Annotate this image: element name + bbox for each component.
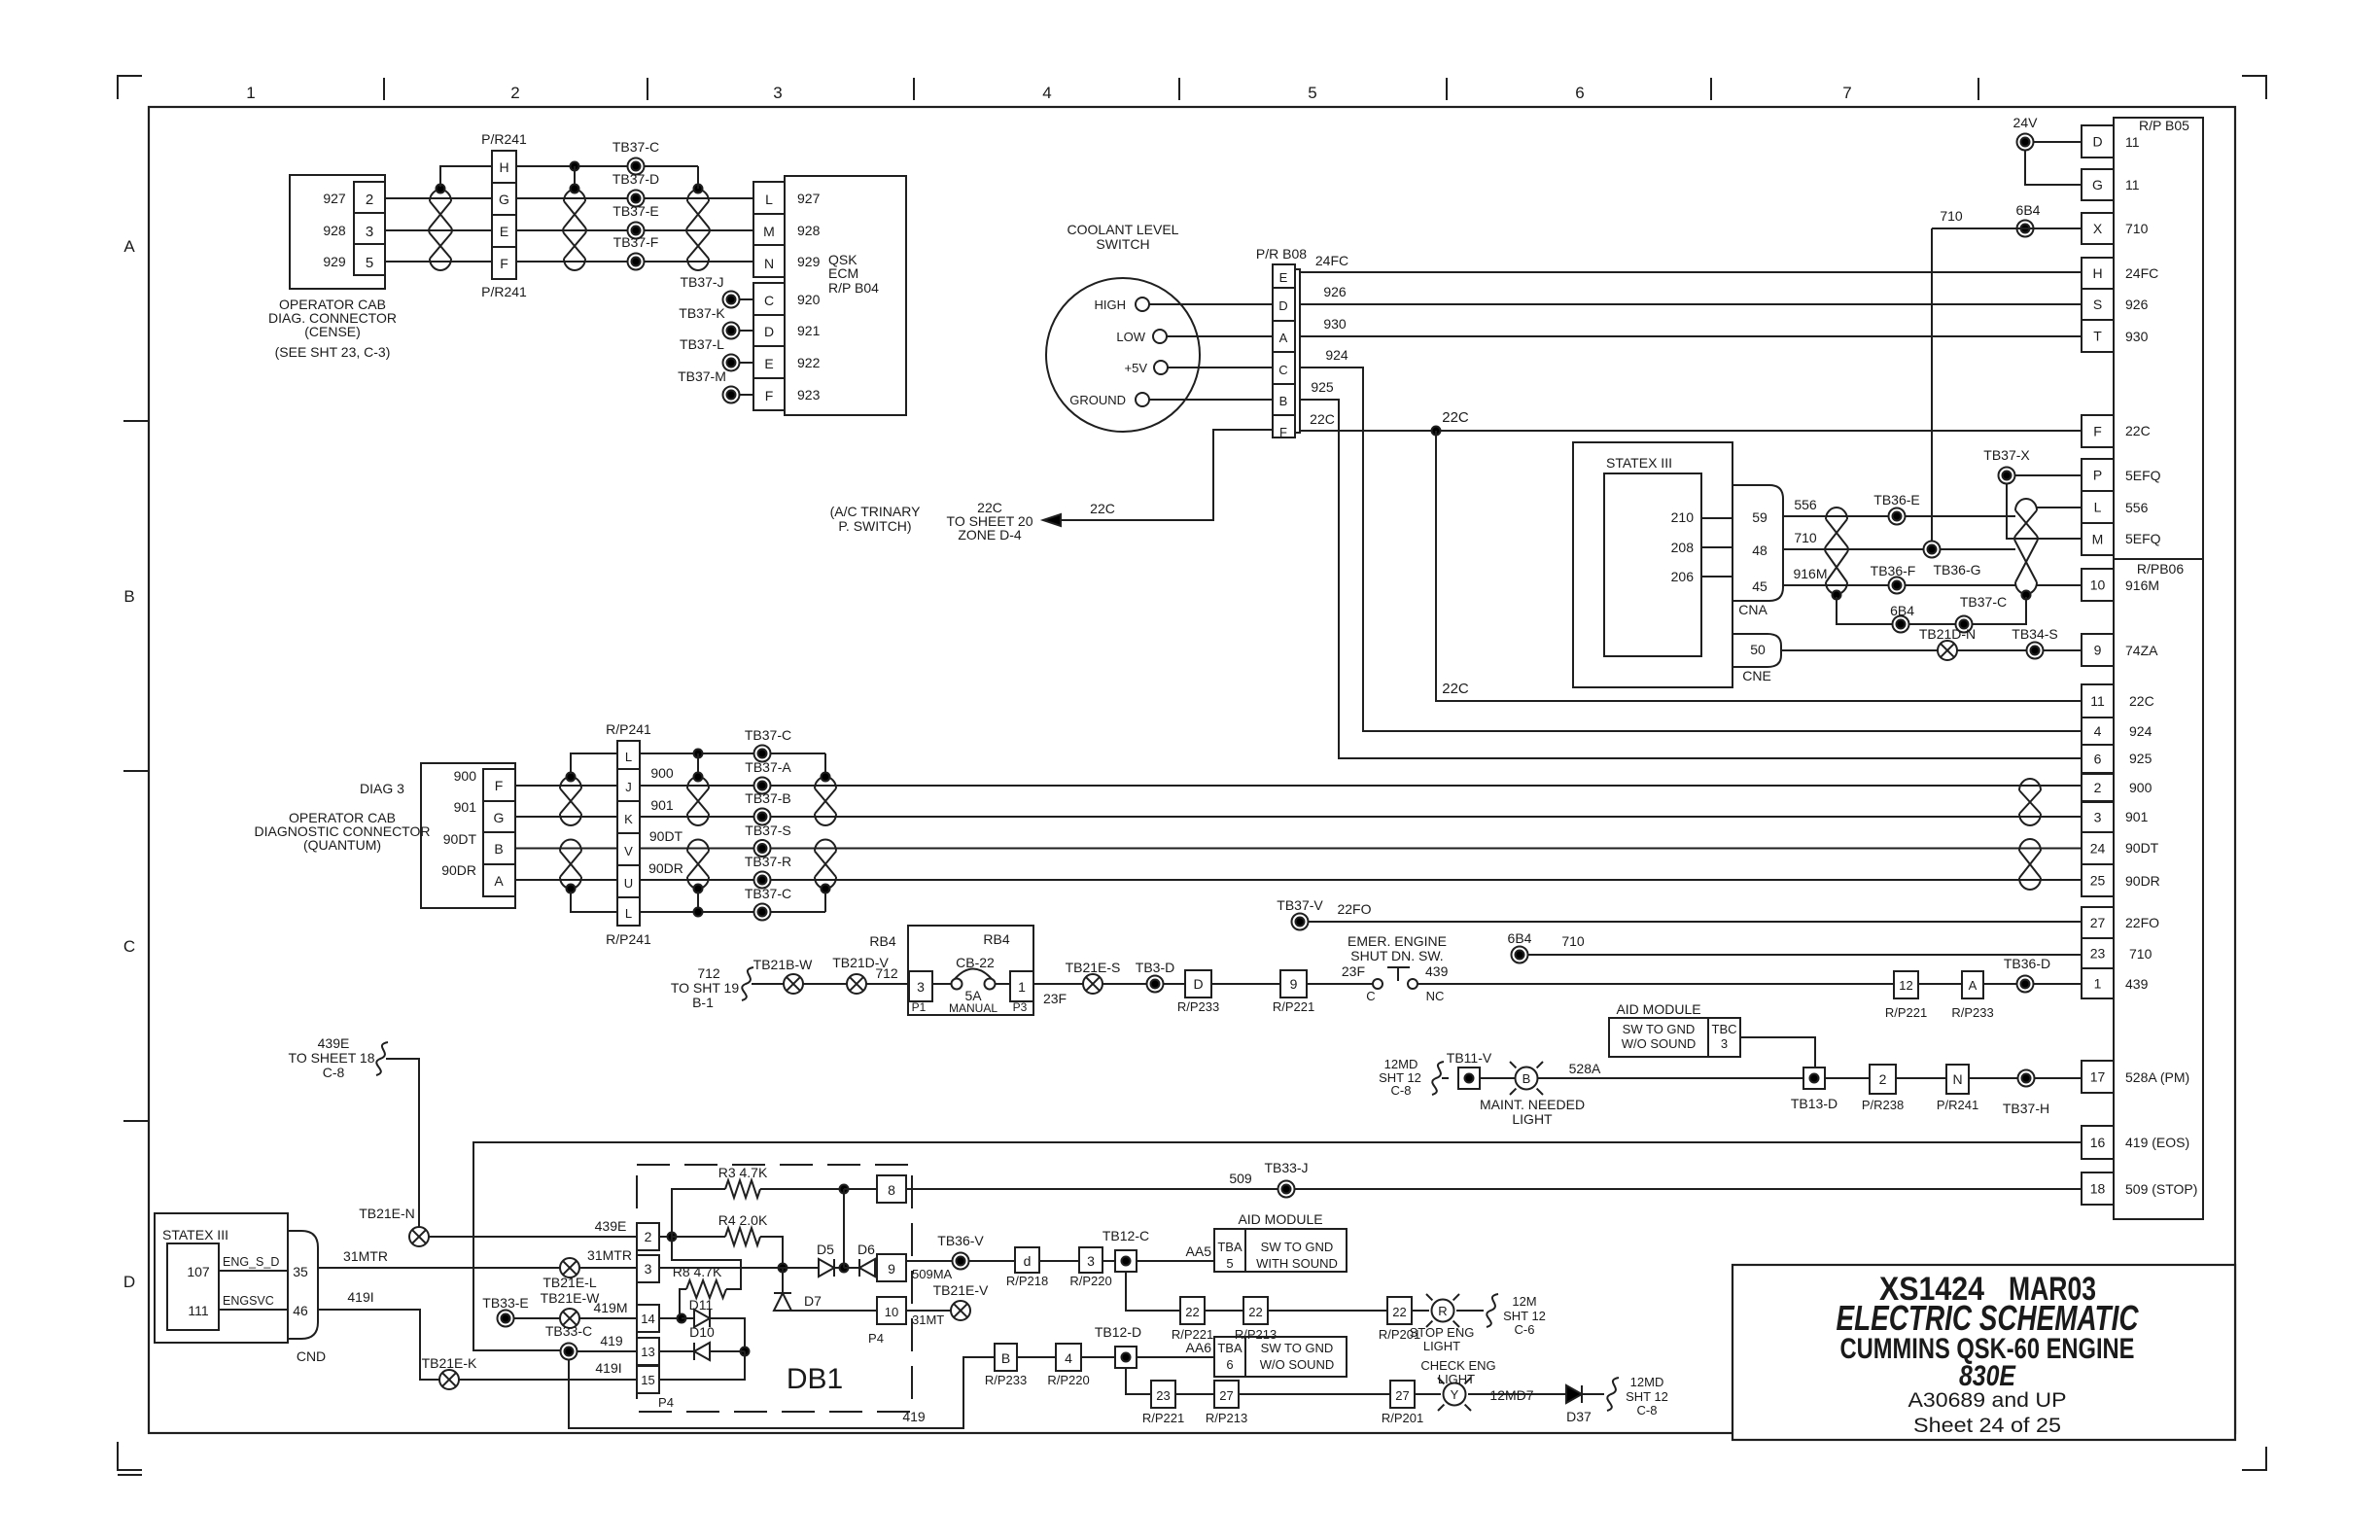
terminal TB21E-W <box>560 1309 579 1328</box>
wire break 12M <box>1487 1294 1498 1327</box>
wire break <box>1432 1062 1444 1095</box>
svg-text:5: 5 <box>1308 84 1316 102</box>
svg-text:22C: 22C <box>1310 411 1335 427</box>
svg-text:710: 710 <box>2125 221 2149 236</box>
wire 710 to pin 23 <box>1528 954 2082 956</box>
STATEX pins ENG_S_D ENGSVC <box>219 1270 288 1272</box>
svg-text:830E: 830E <box>1959 1360 2016 1392</box>
wire 509 stop <box>907 1188 1277 1190</box>
wire 23F RB4 to emer switch <box>1033 983 1083 985</box>
svg-text:TB21B-W: TB21B-W <box>753 957 813 972</box>
svg-text:(QUANTUM): (QUANTUM) <box>303 837 381 853</box>
switch pin GROUND <box>1136 393 1149 406</box>
svg-text:5: 5 <box>366 255 373 271</box>
svg-text:M: M <box>2092 532 2104 547</box>
junction dot <box>567 773 576 782</box>
svg-text:SHUT DN. SW.: SHUT DN. SW. <box>1350 948 1443 963</box>
P4 pin 15 <box>637 1366 659 1393</box>
svg-text:RB4: RB4 <box>983 931 1009 947</box>
svg-text:E: E <box>500 224 508 239</box>
svg-text:11: 11 <box>2125 134 2140 150</box>
svg-text:Sheet 24 of 25: Sheet 24 of 25 <box>1913 1415 2061 1437</box>
junction dot mid twist bottom <box>694 885 703 893</box>
svg-text:22C: 22C <box>1442 681 1469 697</box>
connector pin 22 R/P213 <box>1243 1297 1268 1324</box>
wire H-loop left of P/R241 <box>440 166 492 187</box>
STATEX III lower box <box>155 1213 288 1343</box>
svg-text:31MT: 31MT <box>912 1312 944 1327</box>
svg-text:24V: 24V <box>2013 115 2039 130</box>
svg-text:TB36-G: TB36-G <box>1933 562 1980 577</box>
svg-text:900: 900 <box>650 765 674 781</box>
svg-text:P/R238: P/R238 <box>1862 1098 1904 1112</box>
terminal TB37-L <box>723 355 740 371</box>
connector operator cab diagnostic (QUANTUM) outer box <box>421 763 515 908</box>
terminal TB37-J <box>723 292 740 308</box>
svg-text:LIGHT: LIGHT <box>1512 1111 1553 1127</box>
wire 419 EOS <box>473 1142 2082 1350</box>
svg-text:A: A <box>494 873 504 889</box>
svg-text:920: 920 <box>797 292 821 307</box>
wire AA5 to module <box>1137 1260 1214 1262</box>
svg-text:TB37-L: TB37-L <box>680 336 724 352</box>
vertical link H to twist2 <box>574 166 576 189</box>
svg-text:22C: 22C <box>2129 693 2154 709</box>
svg-text:LIGHT: LIGHT <box>1438 1372 1475 1386</box>
P4 pin 3 <box>637 1255 659 1282</box>
svg-text:CHECK ENG: CHECK ENG <box>1420 1358 1495 1373</box>
twisted pair quantum mid upper <box>687 777 709 825</box>
svg-text:H: H <box>2092 265 2102 281</box>
svg-text:15: 15 <box>641 1373 654 1387</box>
svg-text:TB21E-N: TB21E-N <box>359 1206 415 1221</box>
svg-text:2: 2 <box>2094 780 2102 795</box>
svg-text:E: E <box>764 356 773 371</box>
svg-text:R/PB06: R/PB06 <box>2137 561 2184 577</box>
connector pin 22 R/P201 <box>1387 1297 1412 1324</box>
wire 90DR to pins <box>640 879 2082 881</box>
terminal TB36-D <box>2017 976 2034 993</box>
diode D11 <box>682 1317 694 1319</box>
twisted pair before pins 24 25 <box>2019 839 2041 890</box>
terminal TB34-S <box>2027 643 2044 659</box>
svg-text:921: 921 <box>797 323 821 338</box>
svg-text:439E: 439E <box>318 1035 350 1051</box>
junction dot topL <box>694 750 703 758</box>
svg-text:J: J <box>625 780 632 794</box>
twisted pair before pins 2 3 <box>2019 779 2041 825</box>
R/PB06 pin 25 <box>2082 864 2114 896</box>
R/PB06 pin 24 <box>2082 832 2114 864</box>
svg-text:LIGHT: LIGHT <box>1423 1339 1460 1353</box>
wire 23F to emer sw <box>1307 983 1373 985</box>
wire 928 P/R241 to ECM M <box>516 229 753 231</box>
svg-text:22C: 22C <box>1090 501 1115 516</box>
wire 916M CNA to R/PB06 pin 10 <box>1783 584 2015 586</box>
R/P B05 pin X <box>2082 213 2114 244</box>
svg-text:16: 16 <box>2090 1135 2106 1150</box>
R/PB06 pin 1 <box>2082 968 2114 998</box>
svg-text:TB33-C: TB33-C <box>545 1323 592 1339</box>
maint needed light <box>1537 1089 1543 1095</box>
svg-text:12MD7: 12MD7 <box>1489 1387 1533 1403</box>
svg-text:4: 4 <box>1065 1350 1072 1366</box>
svg-text:924: 924 <box>2129 723 2152 739</box>
svg-text:TB37-B: TB37-B <box>745 790 790 806</box>
junction dot <box>567 885 576 893</box>
svg-text:419: 419 <box>600 1333 623 1348</box>
svg-text:HIGH: HIGH <box>1095 297 1127 312</box>
terminal TB12-C <box>1115 1250 1137 1272</box>
svg-text:R8 4.7K: R8 4.7K <box>673 1264 722 1279</box>
wire 90DT QUANTUM to R/P241 V <box>515 848 617 850</box>
resistor R4 2.0K <box>672 1236 725 1238</box>
wire HIGH to P/R B08 D <box>1149 303 1273 305</box>
svg-text:R/P213: R/P213 <box>1206 1411 1247 1425</box>
svg-text:SHT 12: SHT 12 <box>1626 1389 1668 1404</box>
svg-text:D37: D37 <box>1566 1409 1592 1424</box>
svg-text:22: 22 <box>1185 1305 1199 1319</box>
svg-text:P/R241: P/R241 <box>481 131 527 147</box>
svg-text:916M: 916M <box>1793 566 1827 581</box>
svg-text:419 (EOS): 419 (EOS) <box>2125 1135 2189 1150</box>
connector pin 12 R/P221 <box>1894 971 1918 998</box>
svg-text:14: 14 <box>641 1312 654 1326</box>
wire to TB11-V <box>1442 1077 1449 1079</box>
svg-text:MAINT. NEEDED: MAINT. NEEDED <box>1480 1097 1585 1112</box>
svg-text:SW TO GND: SW TO GND <box>1261 1240 1334 1254</box>
svg-text:W/O SOUND: W/O SOUND <box>1260 1357 1335 1372</box>
svg-text:24FC: 24FC <box>1315 253 1348 268</box>
svg-text:B: B <box>1001 1350 1010 1366</box>
svg-text:23F: 23F <box>1043 991 1067 1006</box>
twisted pair quantum left upper <box>560 777 581 825</box>
svg-text:6B4: 6B4 <box>1890 603 1914 618</box>
wire break 712 <box>742 967 753 1000</box>
svg-text:1: 1 <box>2094 976 2102 992</box>
wire R8 link <box>672 1237 741 1289</box>
svg-text:3: 3 <box>366 224 373 240</box>
svg-text:923: 923 <box>797 387 821 402</box>
svg-text:AID MODULE: AID MODULE <box>1238 1211 1322 1227</box>
svg-text:TB21E-W: TB21E-W <box>541 1290 600 1306</box>
svg-text:F: F <box>1279 425 1287 439</box>
terminal TB21E-V <box>951 1301 970 1320</box>
svg-text:TBC: TBC <box>1712 1022 1737 1036</box>
svg-text:D11: D11 <box>689 1297 714 1312</box>
svg-text:35: 35 <box>293 1264 308 1279</box>
svg-text:TB37-R: TB37-R <box>745 854 791 869</box>
connector pin N P/R241 <box>1946 1065 1969 1094</box>
svg-text:TB13-D: TB13-D <box>1791 1096 1837 1111</box>
svg-text:111: 111 <box>188 1303 208 1318</box>
svg-text:712: 712 <box>697 965 720 981</box>
svg-text:N: N <box>1952 1071 1962 1087</box>
svg-text:TB37-J: TB37-J <box>680 274 723 290</box>
svg-text:509: 509 <box>1229 1171 1252 1186</box>
circuit breaker RB4 box <box>908 926 1033 1015</box>
wire TB12-C down to stop light row <box>1126 1272 1180 1311</box>
wire 930 to R/P B05 T <box>1300 335 2082 337</box>
svg-text:901: 901 <box>454 799 477 815</box>
diode D6 <box>844 1267 859 1269</box>
wire H P/R241 to TB37-C run <box>516 165 698 167</box>
R/P B05 pin G <box>2082 169 2114 200</box>
vertical L to mid twist <box>697 753 699 774</box>
twisted pair quantum right upper <box>815 777 836 825</box>
svg-text:C: C <box>1366 989 1375 1003</box>
svg-text:TB11-V: TB11-V <box>1447 1050 1492 1066</box>
svg-text:TBA: TBA <box>1217 1341 1242 1355</box>
terminal TB33-E <box>498 1311 514 1327</box>
svg-text:C: C <box>123 937 135 956</box>
wire right twist to L2 <box>824 892 826 912</box>
svg-text:K: K <box>624 812 633 826</box>
connector P/R241 upper strip pins H G E F <box>492 151 516 279</box>
twisted pair quantum mid lower <box>687 840 709 890</box>
svg-text:R/P233: R/P233 <box>985 1373 1027 1387</box>
connector pin 27 R/P213 <box>1214 1381 1239 1408</box>
wire to maint light <box>1480 1077 1515 1079</box>
wire +5V to P/R B08 C <box>1168 367 1273 368</box>
twisted pair statex left <box>1825 507 1848 594</box>
svg-text:L: L <box>2094 500 2102 515</box>
svg-text:45: 45 <box>1752 578 1767 594</box>
wire 24V to pin G <box>2025 151 2082 185</box>
wire 710 CNA to TB36-G <box>1783 548 2015 550</box>
svg-text:1: 1 <box>246 84 255 102</box>
svg-text:439: 439 <box>1425 963 1449 979</box>
svg-text:901: 901 <box>2125 809 2149 824</box>
connector QUANTUM pin box F G B A <box>483 769 515 896</box>
svg-text:528A: 528A <box>1569 1061 1601 1076</box>
terminal TB36-F <box>1889 577 1906 594</box>
connector ECM pins L M N <box>753 182 785 277</box>
svg-text:3: 3 <box>917 979 925 995</box>
wire 90DT to pins <box>640 848 2082 850</box>
wire 927 P/R241 to ECM L <box>516 197 753 199</box>
connector R/P241 quantum strip <box>617 741 640 926</box>
svg-text:90DT: 90DT <box>443 831 477 847</box>
R/P B05 pin F <box>2082 415 2114 447</box>
R/PB06 pin 17 <box>2082 1061 2114 1093</box>
wire H down to twist3 <box>697 166 699 189</box>
R/PB06 pin 16 <box>2082 1126 2114 1159</box>
svg-text:R/P221: R/P221 <box>1273 999 1314 1014</box>
svg-text:D7: D7 <box>804 1293 822 1309</box>
wire 31MTR statex to P4 pin3 <box>318 1267 560 1269</box>
svg-text:25: 25 <box>2090 873 2106 889</box>
svg-text:R/P B05: R/P B05 <box>2139 118 2189 133</box>
svg-text:R/P213: R/P213 <box>1235 1327 1277 1342</box>
svg-text:9: 9 <box>888 1261 895 1277</box>
svg-text:208: 208 <box>1671 540 1695 555</box>
P4 pin 14 <box>637 1305 659 1332</box>
svg-text:22FO: 22FO <box>1337 901 1371 917</box>
svg-text:D: D <box>1193 976 1203 992</box>
svg-text:R/P218: R/P218 <box>1006 1274 1048 1288</box>
R/PB06 pin 11 <box>2082 684 2114 717</box>
wire top L to TB37-C <box>640 752 825 754</box>
svg-text:DIAG 3: DIAG 3 <box>360 781 404 796</box>
diode D10 <box>659 1350 694 1352</box>
switch pin HIGH <box>1136 297 1149 311</box>
svg-text:SWITCH: SWITCH <box>1096 236 1149 252</box>
svg-text:A: A <box>1279 331 1288 345</box>
svg-text:E: E <box>1279 270 1288 285</box>
coolant level switch circle <box>1046 278 1200 432</box>
svg-text:TB37-F: TB37-F <box>613 234 659 250</box>
terminal TB37-C <box>628 158 645 175</box>
terminal TB21E-L <box>560 1258 579 1277</box>
connector pin B R/P233 <box>995 1344 1017 1371</box>
svg-text:8: 8 <box>888 1182 895 1198</box>
svg-text:R/P201: R/P201 <box>1382 1411 1423 1425</box>
svg-text:T: T <box>2093 329 2102 344</box>
svg-text:F: F <box>500 256 508 271</box>
svg-text:3: 3 <box>645 1261 652 1277</box>
svg-text:924: 924 <box>1325 347 1348 363</box>
wire to pin 17 <box>2035 1077 2082 1079</box>
terminal TB33-C <box>561 1344 577 1360</box>
junction dot mid twist top <box>694 773 703 782</box>
wire 927 CENSE pin2 to P/R241 G <box>385 197 492 199</box>
R/P B05 pin T <box>2082 320 2114 352</box>
twisted pair quantum right lower <box>815 840 836 890</box>
svg-text:926: 926 <box>2125 297 2149 312</box>
junction dot D5-D6 <box>834 1267 844 1269</box>
svg-text:50: 50 <box>1750 642 1766 657</box>
svg-text:N: N <box>764 256 774 271</box>
svg-text:12MD: 12MD <box>1384 1057 1418 1071</box>
svg-text:A30689 and UP: A30689 and UP <box>1908 1389 2067 1412</box>
svg-text:P/R241: P/R241 <box>1937 1098 1978 1112</box>
svg-text:TB37-C: TB37-C <box>1960 594 2007 610</box>
svg-text:TB37-C: TB37-C <box>612 139 659 155</box>
svg-text:AA6: AA6 <box>1186 1340 1212 1355</box>
svg-text:419I: 419I <box>595 1360 621 1376</box>
svg-text:R/P B04: R/P B04 <box>828 280 879 296</box>
svg-text:90DT: 90DT <box>2125 840 2159 856</box>
svg-text:925: 925 <box>2129 751 2152 766</box>
RB4 pin 1 P3 <box>1010 971 1033 1001</box>
svg-text:AID MODULE: AID MODULE <box>1616 1001 1700 1017</box>
svg-text:TB36-E: TB36-E <box>1873 492 1919 507</box>
svg-text:3: 3 <box>1721 1036 1728 1051</box>
wire 556 CNA to R/P B05 L <box>1783 515 2015 517</box>
terminal TB37-R <box>754 872 771 889</box>
svg-text:439E: 439E <box>595 1218 627 1234</box>
junction dot H at x591 <box>571 162 579 171</box>
svg-text:7: 7 <box>1842 84 1851 102</box>
svg-text:90DR: 90DR <box>2125 873 2160 889</box>
terminal TB21E-K <box>439 1370 459 1389</box>
svg-text:(CENSE): (CENSE) <box>304 324 361 339</box>
wire TB12-D down to check light row <box>1126 1368 1151 1394</box>
svg-text:48: 48 <box>1752 542 1767 558</box>
svg-text:3: 3 <box>773 84 782 102</box>
R/PB06 pin 6 <box>2082 745 2114 773</box>
svg-text:H: H <box>499 159 508 175</box>
svg-text:D: D <box>1278 298 1287 313</box>
terminal TB36-G <box>1924 542 1941 558</box>
wire 926 to R/P B05 S <box>1300 303 2082 305</box>
svg-text:6: 6 <box>1575 84 1584 102</box>
svg-text:R: R <box>1438 1304 1447 1318</box>
connector pin 9 R/P221 <box>1280 970 1307 997</box>
svg-text:6B4: 6B4 <box>1508 930 1532 946</box>
svg-text:TB37-V: TB37-V <box>1277 897 1323 913</box>
svg-text:TB12-C: TB12-C <box>1102 1228 1149 1243</box>
terminal TB11-V <box>1458 1067 1480 1089</box>
terminal TB37-X <box>1999 468 2015 484</box>
svg-text:P3: P3 <box>1013 1000 1028 1014</box>
svg-text:23: 23 <box>2090 946 2106 962</box>
connector R/P B05 box <box>2114 118 2203 559</box>
svg-text:STATEX III: STATEX III <box>162 1227 228 1242</box>
svg-text:5: 5 <box>1226 1256 1233 1271</box>
svg-text:C-8: C-8 <box>1391 1083 1412 1098</box>
svg-text:CNE: CNE <box>1742 668 1771 683</box>
svg-text:ENGSVC: ENGSVC <box>223 1294 274 1308</box>
svg-text:439: 439 <box>2125 976 2149 992</box>
svg-text:TB3-D: TB3-D <box>1136 960 1174 975</box>
svg-text:12MD: 12MD <box>1630 1375 1664 1389</box>
connector pin 27 R/P201 <box>1390 1381 1415 1408</box>
svg-text:2: 2 <box>366 192 373 208</box>
terminal TB21B-W <box>784 974 803 994</box>
svg-text:10: 10 <box>885 1305 898 1319</box>
svg-text:3: 3 <box>1087 1253 1095 1269</box>
diode D37 <box>1566 1385 1582 1403</box>
svg-text:SW TO GND: SW TO GND <box>1261 1341 1334 1355</box>
wire 419I to P4 pin15 <box>459 1379 637 1381</box>
svg-text:107: 107 <box>187 1264 210 1279</box>
wire 6B4 bypass <box>1837 597 2026 624</box>
svg-text:24: 24 <box>2090 841 2106 857</box>
wire TB33-E to TB21E-W <box>514 1317 560 1319</box>
connector pin 2 P/R238 <box>1870 1065 1896 1094</box>
terminal TB12-D <box>1115 1347 1137 1368</box>
wire 22C down to R/PB06 pin 11 <box>1436 431 2082 701</box>
connector CNA <box>1732 485 1783 601</box>
svg-text:509 (STOP): 509 (STOP) <box>2125 1181 2197 1197</box>
svg-text:R/P220: R/P220 <box>1047 1373 1089 1387</box>
R/PB06 pin 23 <box>2082 938 2114 968</box>
svg-text:TB33-J: TB33-J <box>1264 1160 1308 1175</box>
terminal TB13-D <box>1803 1067 1825 1089</box>
svg-text:C-6: C-6 <box>1515 1322 1535 1337</box>
svg-text:18: 18 <box>2090 1181 2106 1197</box>
wire to pin d <box>969 1260 1015 1262</box>
wire 439E down to TB21E-N <box>386 1059 419 1227</box>
svg-text:3: 3 <box>2094 810 2102 825</box>
svg-text:D10: D10 <box>689 1324 715 1340</box>
svg-text:P4: P4 <box>868 1331 884 1346</box>
R/P B05 pin S <box>2082 289 2114 320</box>
svg-text:NC: NC <box>1426 989 1445 1003</box>
R/PB06 pin 27 <box>2082 907 2114 938</box>
svg-text:TB37-E: TB37-E <box>612 203 658 219</box>
terminal TB33-J <box>1278 1181 1295 1198</box>
svg-text:STOP ENG: STOP ENG <box>1410 1325 1475 1340</box>
terminal 24V <box>2017 134 2034 151</box>
svg-text:TB12-D: TB12-D <box>1095 1324 1141 1340</box>
connector R/PB06 box <box>2114 559 2203 1219</box>
svg-text:(A/C TRINARY: (A/C TRINARY <box>830 504 921 519</box>
switch pin LOW <box>1153 330 1167 343</box>
svg-text:CNA: CNA <box>1738 602 1767 617</box>
